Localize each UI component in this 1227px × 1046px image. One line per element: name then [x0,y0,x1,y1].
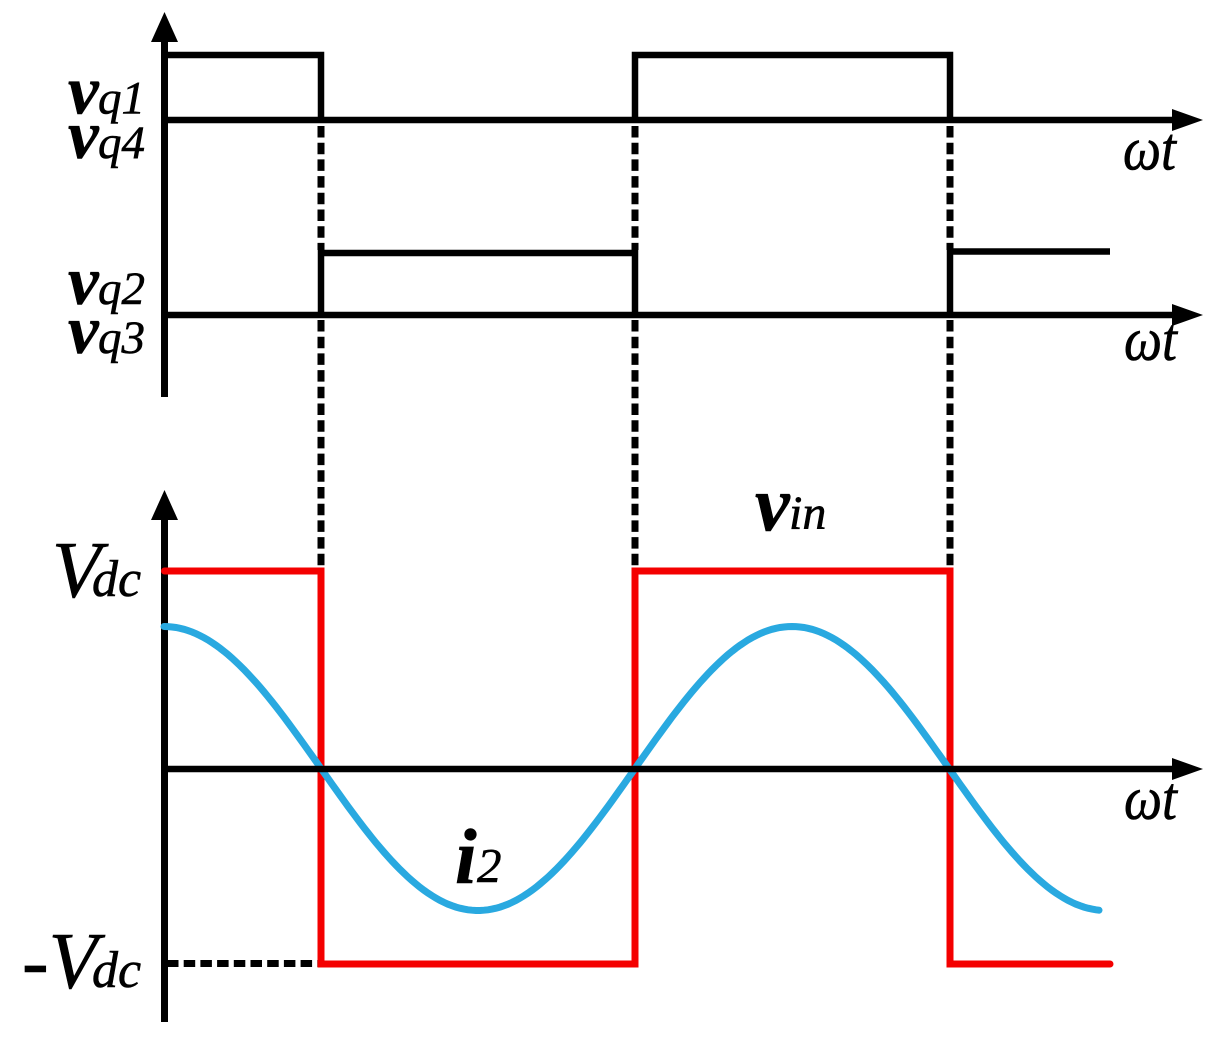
svg-text:v: v [68,292,100,368]
vertical axis arrowhead (top chart) [151,12,178,42]
pulse vq2 second [950,252,1110,316]
vertical axis (bottom chart) [161,516,168,1022]
dashed line x=950 lower [947,320,954,566]
dashed line x=321 lower [318,320,325,566]
pulse vq1 second [635,55,950,120]
pulse vq2 first [321,253,635,315]
dashed line x=635 upper [632,126,639,250]
svg-text:q2: q2 [98,263,145,315]
blue sine wave i2 [164,627,1099,911]
svg-text:v: v [68,97,100,173]
vertical axis (top chart) [161,38,168,397]
svg-text:dc: dc [92,942,141,999]
svg-text:q4: q4 [98,117,145,169]
svg-text:ωt: ωt [1123,117,1178,184]
svg-text:2: 2 [477,838,502,893]
horizontal axis vq1/vq4 [161,117,1177,124]
svg-text:v: v [755,460,791,547]
svg-text:i: i [455,813,477,900]
horizontal axis vq2/vq3 [161,312,1177,319]
horizontal zero axis (bottom chart) [161,766,1177,773]
red square wave vin [165,571,1111,964]
dashed line x=635 lower [632,320,639,566]
svg-text:q3: q3 [98,312,145,364]
arrowhead axis vq2/vq3 [1172,304,1203,326]
arrowhead axis vq1/vq4 [1172,109,1203,131]
svg-text:dc: dc [92,551,141,608]
pulse vq1 first [165,55,322,120]
arrowhead zero axis [1172,758,1203,780]
svg-text:in: in [789,487,826,540]
dashed line x=321 upper [318,126,325,250]
dashed line x=950 upper [947,126,954,250]
dashed -Vdc level line [167,960,318,967]
vertical axis arrowhead (bottom chart) [151,490,178,520]
svg-text:ωt: ωt [1124,766,1179,833]
svg-text:ωt: ωt [1124,307,1179,374]
